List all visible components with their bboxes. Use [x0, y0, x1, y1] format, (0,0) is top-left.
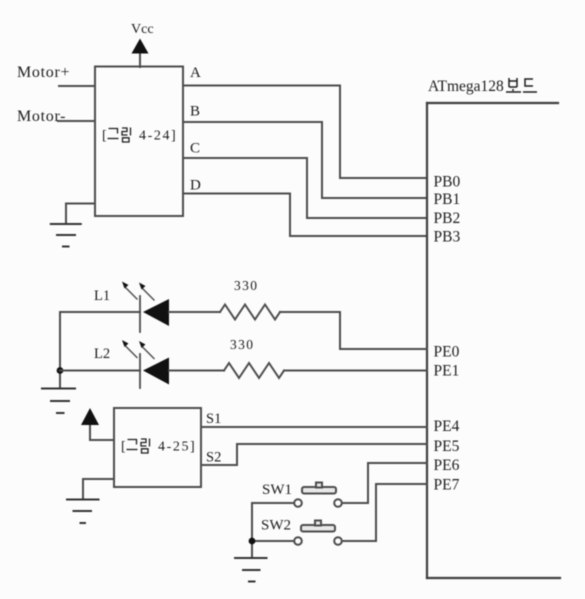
label ATmega128 보드: [428, 78, 537, 95]
wire U2 ground lead: [83, 479, 114, 499]
wire B : U1 pin B to PB1: [183, 122, 427, 198]
LED L2: [60, 340, 224, 388]
svg-text:PE6: PE6: [434, 457, 460, 474]
wire D : U1 pin D to PB3: [183, 194, 427, 237]
svg-text:ATmega128: ATmega128: [428, 78, 504, 95]
LED L1: [60, 282, 220, 333]
svg-text:PB1: PB1: [434, 191, 461, 208]
svg-text:[: [: [102, 129, 107, 144]
wire SW2 right to PE7: [342, 484, 427, 541]
svg-text:PB0: PB0: [434, 173, 461, 190]
ground (below U1): [51, 224, 81, 247]
ATmega128 board outline: [427, 103, 560, 578]
svg-text:SW1: SW1: [262, 482, 292, 498]
resistor R2 330: [224, 363, 284, 378]
wire R1 to PE0: [280, 312, 427, 349]
ground (below LED rail): [42, 389, 75, 414]
svg-text:PE5: PE5: [434, 438, 460, 455]
svg-text:PE4: PE4: [434, 418, 460, 435]
svg-text:A: A: [190, 65, 201, 81]
svg-text:Motor-: Motor-: [17, 108, 66, 125]
wire SW1 right to PE6: [342, 463, 427, 503]
svg-text:PE0: PE0: [434, 344, 460, 361]
wire SW2 left lead: [252, 540, 294, 542]
svg-text:330: 330: [230, 337, 254, 352]
svg-text:Vcc: Vcc: [131, 22, 154, 37]
svg-text:[: [: [121, 440, 126, 455]
svg-text:S2: S2: [206, 450, 221, 466]
node LED rail junction: [57, 367, 64, 374]
svg-text:PE1: PE1: [434, 363, 460, 380]
svg-text:PE7: PE7: [434, 477, 460, 494]
svg-text:4-24]: 4-24]: [139, 129, 177, 144]
ground (below U2): [67, 500, 99, 524]
wire R2 to PE1: [284, 370, 427, 372]
wire A : U1 pin A to PB0: [183, 86, 427, 179]
svg-text:L1: L1: [94, 288, 110, 304]
node switch rail junction: [249, 538, 256, 545]
block U1 [그림 4-24]: [95, 67, 183, 217]
svg-text:C: C: [190, 141, 200, 157]
wire S1 : U2 to PE4: [201, 426, 427, 428]
switch SW2: [294, 521, 342, 545]
resistor R1 330: [220, 305, 280, 320]
svg-text:D: D: [190, 178, 201, 194]
wire Motor- input: [58, 120, 95, 122]
label [그림 4-25] inside U2: [121, 439, 196, 455]
ground (below switches): [235, 558, 267, 582]
wire SW1 left to ground rail: [252, 503, 294, 558]
svg-text:330: 330: [234, 278, 258, 293]
power Vcc symbol (for U2): [81, 408, 114, 440]
wire Motor+ input: [59, 85, 95, 87]
svg-text:PB3: PB3: [434, 229, 461, 246]
wire U1 ground lead: [66, 204, 95, 225]
wire C : U1 pin C to PB2: [183, 158, 427, 218]
wire S2 : U2 to PE5: [201, 444, 427, 465]
switch SW1: [294, 483, 342, 507]
svg-text:B: B: [190, 104, 200, 120]
svg-text:L2: L2: [94, 346, 110, 362]
svg-text:4-25]: 4-25]: [158, 440, 196, 455]
svg-text:SW2: SW2: [261, 518, 291, 534]
wire LED cathode rail: [59, 312, 61, 388]
svg-text:Motor+: Motor+: [17, 64, 70, 81]
label [그림 4-24] inside U1: [102, 128, 177, 144]
svg-text:S1: S1: [206, 411, 221, 427]
block U2 [그림 4-25]: [114, 408, 201, 487]
power Vcc symbol (top, for U1): [132, 39, 149, 68]
svg-text:PB2: PB2: [434, 210, 461, 227]
